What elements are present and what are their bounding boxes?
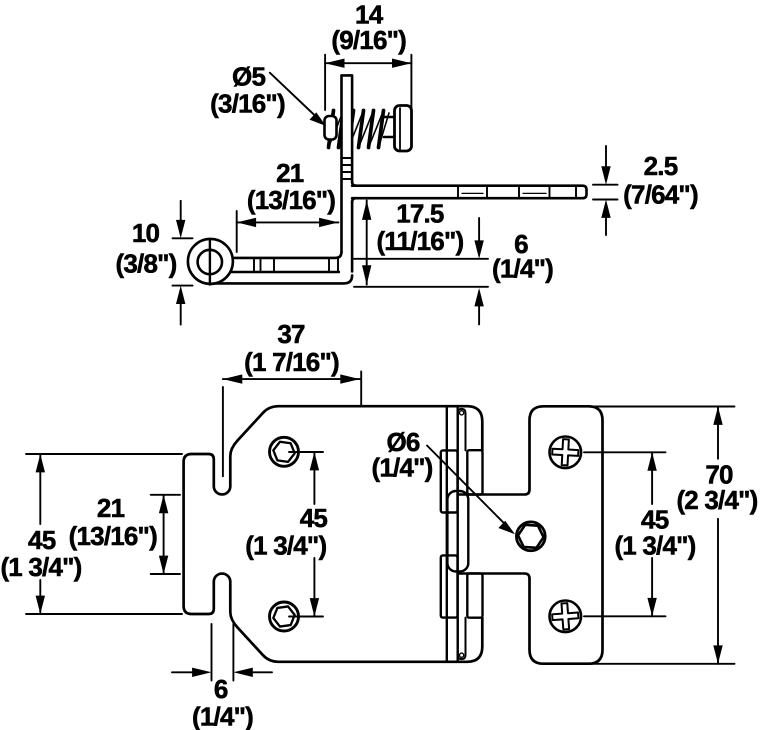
- screw tip cap: [325, 116, 337, 140]
- dimension 45 (1 3/4") left: [26, 454, 182, 614]
- vertical mounting bar (covers screw): [342, 75, 353, 255]
- svg-text:(1 3/4"): (1 3/4"): [614, 531, 695, 561]
- dimension 21 (13/16") bottom view: [151, 495, 180, 574]
- barrel pin line: [457, 407, 459, 660]
- barrel fold line: [446, 407, 448, 660]
- screw thread coil: [329, 111, 384, 148]
- svg-text:2.5: 2.5: [644, 151, 678, 181]
- barrel right strip top corner: [467, 406, 482, 450]
- center hex hole Ø6: [516, 522, 545, 551]
- svg-text:(11/16"): (11/16"): [376, 226, 463, 256]
- dimension 2.5 (7/64"): [593, 146, 618, 235]
- left plate hole lower (with hex): [270, 602, 299, 631]
- dimension 45 (1 3/4") right: [584, 452, 666, 616]
- bar thread ticks: [342, 158, 353, 179]
- svg-text:10: 10: [132, 218, 160, 248]
- svg-text:21: 21: [97, 493, 125, 523]
- dimension 37 (1 7/16"): [223, 372, 361, 477]
- right mounting column: [530, 406, 603, 663]
- bottom horizontal bar: [233, 252, 342, 258]
- left knuckle upper: [441, 450, 458, 512]
- svg-text:(1/4"): (1/4"): [192, 702, 253, 730]
- dimension 6 (1/4") top view: [354, 218, 488, 324]
- middle bar bottom edge: [459, 574, 530, 579]
- upper flange (goes right): [352, 186, 586, 199]
- dimension 21 (13/16") top view: [236, 211, 238, 252]
- svg-text:(13/16"): (13/16"): [69, 521, 157, 551]
- screw head inner line: [399, 108, 401, 149]
- screw upper (phillips): [550, 437, 582, 469]
- central pill knuckle: [447, 491, 468, 572]
- svg-text:6: 6: [214, 674, 228, 704]
- svg-text:(7/64"): (7/64"): [623, 179, 698, 209]
- svg-text:(9/16"): (9/16"): [331, 25, 406, 55]
- bottom bar ticks: [254, 259, 338, 272]
- knuckle center line: [209, 239, 211, 285]
- screw lower (phillips): [550, 601, 582, 633]
- svg-text:(1/4"): (1/4"): [492, 253, 553, 283]
- dimension 14 (9/16"): [325, 55, 411, 110]
- left wing outline: [184, 406, 467, 662]
- knuckle curl (rolled barrel): [188, 239, 233, 284]
- svg-text:(2 3/4"): (2 3/4"): [676, 485, 757, 515]
- pin bottom tab: [458, 618, 466, 660]
- svg-text:21: 21: [276, 158, 304, 188]
- right knuckle lower: [467, 573, 482, 617]
- middle bar top edge: [459, 490, 530, 495]
- dimension 6 (1/4") bottom view: [172, 624, 272, 681]
- dimension 17.5 (11/16"): [366, 201, 368, 285]
- dimension 10 (3/8"): [173, 201, 193, 325]
- flange fillets into bar: [352, 182, 356, 203]
- knuckle inner circle: [198, 250, 222, 274]
- pin top tab: [458, 409, 466, 451]
- svg-text:(3/8"): (3/8"): [116, 248, 177, 278]
- svg-text:(13/16"): (13/16"): [247, 185, 335, 215]
- right knuckle upper: [467, 450, 482, 494]
- svg-text:(3/16"): (3/16"): [210, 88, 285, 118]
- svg-text:45: 45: [28, 525, 56, 555]
- barrel right strip bottom corner: [467, 618, 482, 662]
- svg-text:45: 45: [300, 503, 328, 533]
- dimension 45 (1 3/4") middle: [289, 452, 323, 617]
- screw shank: [384, 117, 395, 137]
- flange segment ticks: [458, 187, 576, 198]
- svg-text:Ø5: Ø5: [232, 62, 265, 92]
- svg-text:(1/4"): (1/4"): [372, 452, 433, 482]
- dimension 70 (2 3/4"): [583, 407, 735, 664]
- flange inner fold dashes: [462, 192, 546, 194]
- svg-text:(1 7/16"): (1 7/16"): [244, 347, 339, 377]
- svg-text:17.5: 17.5: [396, 199, 444, 229]
- svg-text:(1 3/4"): (1 3/4"): [245, 530, 326, 560]
- left knuckle lower: [441, 555, 458, 617]
- svg-text:37: 37: [277, 319, 305, 349]
- screw head: [395, 106, 412, 152]
- left plate hole upper (with hex): [270, 437, 299, 466]
- svg-text:(1 3/4"): (1 3/4"): [0, 552, 81, 582]
